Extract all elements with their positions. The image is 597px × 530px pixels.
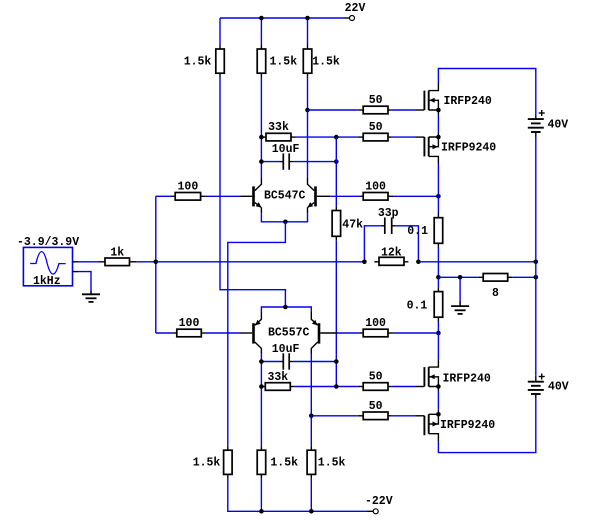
junction bottom feedback tap — [436, 331, 441, 336]
resistor 50 (row2) — [358, 133, 392, 141]
terminal 22V — [344, 16, 355, 21]
wire 10uF row left — [261, 161, 280, 163]
wire 50 to m2 gate — [392, 136, 415, 138]
wire base row top right — [330, 195, 359, 197]
wire col1 down to bottom emitter bus — [220, 78, 285, 308]
resistor 100 (upper left) — [171, 193, 205, 201]
svg-text:40V: 40V — [548, 380, 569, 393]
wire source to R 1k — [78, 261, 99, 263]
wire 100 to Q3 base — [206, 332, 241, 334]
wire 33p branch left — [364, 226, 380, 262]
junction col2b rail — [259, 509, 264, 514]
mosfet M1 IRFP240 (top) — [415, 83, 438, 115]
junction output column feedback tap — [436, 194, 441, 199]
resistor 1.5k (top middle) — [257, 45, 266, 78]
wire 100 to Q1 base — [205, 195, 241, 197]
resistor 1.5k (bottom right) — [307, 446, 316, 478]
junction output node — [436, 275, 441, 280]
svg-text:0.1: 0.1 — [407, 225, 428, 238]
svg-text:8: 8 — [492, 287, 499, 300]
resistor 1.5k (top right) — [303, 45, 312, 78]
wire col3 upper — [307, 18, 309, 45]
svg-text:50: 50 — [369, 400, 383, 413]
svg-text:1.5k: 1.5k — [193, 457, 221, 470]
wire bottom feedback tap to M3 drain — [437, 333, 439, 360]
battery B1 40V — [528, 110, 545, 137]
svg-text:50: 50 — [369, 94, 383, 107]
mosfet M3 IRFP240 (bottom) — [415, 360, 438, 391]
wire col2 upper — [260, 18, 262, 45]
wire output column upper 0.1 lead — [437, 196, 439, 213]
svg-text:IRFP240: IRFP240 — [444, 95, 492, 108]
svg-text:33p: 33p — [378, 207, 399, 220]
wire col2 10uF row to Q1 collector — [260, 162, 262, 178]
resistor 100 (upper right) — [359, 193, 393, 201]
resistor 0.1 (lower) — [434, 287, 443, 321]
junction emitter bus bottom — [283, 305, 288, 310]
wire 10uF to feedback column — [293, 361, 336, 363]
ground (output) — [451, 301, 469, 314]
wire 50 to M4 gate — [392, 415, 415, 417]
wire base row top left — [156, 195, 171, 197]
wire col2 to 33k row — [260, 78, 262, 138]
junction col2 10uF row — [259, 159, 264, 164]
wire tail top pair to bottom left column — [228, 222, 286, 446]
svg-text:47k: 47k — [342, 218, 363, 231]
junction col2b 33k row — [259, 384, 264, 389]
wire 50 to M3 gate — [392, 386, 415, 388]
wire col3b to 1.5k — [310, 416, 312, 446]
mosfet M2 IRFP9240 (top) — [415, 133, 438, 164]
svg-text:10uF: 10uF — [272, 143, 300, 156]
junction output row at battery rail — [534, 275, 539, 280]
svg-text:1.5k: 1.5k — [312, 56, 340, 69]
wire base row bottom left — [156, 332, 173, 334]
resistor 50 (row4) — [358, 412, 392, 420]
junction feedback 33k row — [334, 135, 339, 140]
junction col2 rail — [259, 16, 264, 21]
svg-text:100: 100 — [365, 180, 386, 193]
terminal -22V — [368, 509, 379, 514]
wire 10uF bottom row left — [261, 361, 280, 363]
svg-text:50: 50 — [369, 371, 383, 384]
wire row2b to 50 — [311, 415, 358, 417]
svg-text:33k: 33k — [268, 121, 289, 134]
svg-text:22V: 22V — [345, 2, 366, 15]
wire +22V rail — [220, 17, 344, 19]
junction col3 row1 — [305, 108, 310, 113]
svg-text:40V: 40V — [548, 118, 569, 131]
wire 33p branch right — [396, 226, 419, 262]
wire col1 upper — [219, 18, 221, 45]
wire base row bottom right — [338, 332, 360, 334]
junction feedback 10uF bottom — [334, 359, 339, 364]
transistor Q1 BC547C (left) — [241, 178, 262, 213]
svg-text:50: 50 — [369, 121, 383, 134]
svg-text:1.5k: 1.5k — [184, 56, 212, 69]
svg-text:10uF: 10uF — [272, 343, 300, 356]
wire M2 drain to feedback tap — [437, 164, 439, 197]
capacitor 10uF (bottom) — [280, 353, 293, 369]
wire output column to output node — [437, 248, 439, 278]
battery B2 40V — [528, 374, 545, 399]
svg-text:-3.9/3.9V: -3.9/3.9V — [17, 236, 79, 249]
wire center row right segment — [418, 261, 535, 263]
wire M4 drain to battery return — [438, 398, 535, 453]
wire M1 drain up and over to battery — [438, 69, 535, 117]
ground (input) — [82, 291, 100, 302]
wire 100 to output column — [393, 195, 438, 197]
wire battery rail middle — [535, 137, 537, 376]
junction M2 source — [436, 135, 441, 140]
voltage source V1 -3.9/3.9V 1kHz — [23, 247, 78, 285]
wire col3b collector to row2b — [310, 354, 312, 416]
wire 100 to bottom feedback tap — [393, 332, 438, 334]
wire M3 source to M4 source — [437, 391, 439, 410]
resistor 47k — [332, 206, 341, 240]
wire -22V rail — [228, 478, 368, 511]
resistor 1.5k (top left) — [216, 45, 225, 78]
wire 33k to feedback column — [295, 386, 358, 388]
junction feedback 10uF row — [334, 159, 339, 164]
junction M1 source — [436, 108, 441, 113]
junction col2b 10uF row — [259, 359, 264, 364]
resistor 1.5k (bottom left) — [224, 446, 233, 478]
wire col2 33k row to 10uF row — [260, 137, 262, 162]
wire output node to lower 0.1 — [437, 277, 439, 287]
junction col3b rail — [309, 509, 314, 514]
junction col3b row2b — [309, 414, 314, 419]
junction feedback 33k bottom — [334, 384, 339, 389]
svg-text:100: 100 — [365, 317, 386, 330]
junction col2 33k row — [259, 135, 264, 140]
resistor 50 (row3) — [358, 383, 392, 391]
resistor 100 (lower left) — [173, 329, 206, 337]
svg-text:1.5k: 1.5k — [270, 56, 298, 69]
svg-text:1.5k: 1.5k — [270, 457, 298, 470]
svg-text:-22V: -22V — [365, 495, 393, 508]
junction center row at battery rail — [534, 260, 539, 265]
resistor 0.1 (upper) — [434, 214, 443, 248]
transistor Q4 BC557C (right) — [311, 312, 337, 354]
wire emitter bus top pair — [261, 213, 307, 222]
resistor 100 (lower right) — [359, 329, 393, 337]
svg-text:IRFP9240: IRFP9240 — [440, 419, 495, 432]
wire emitter bus bottom pair — [261, 307, 311, 312]
svg-text:BC547C: BC547C — [264, 190, 306, 203]
wire output row to ground tap — [438, 276, 478, 278]
svg-text:BC557C: BC557C — [268, 327, 310, 340]
junction emitter bus — [283, 220, 288, 225]
wire 10uF to feedback node — [293, 161, 336, 163]
wire feedback column upper — [335, 137, 337, 206]
capacitor 33p — [381, 218, 396, 235]
wire col3 to row1 — [307, 78, 309, 111]
resistor 8 — [479, 274, 513, 282]
svg-text:33k: 33k — [267, 371, 288, 384]
svg-text:12k: 12k — [381, 246, 402, 259]
svg-text:IRFP240: IRFP240 — [443, 373, 491, 386]
wire feedback column lower — [335, 241, 337, 387]
wire ground stub — [459, 277, 461, 301]
transistor Q2 BC547C (right) — [308, 178, 331, 213]
wire 50 to m1 gate — [392, 109, 415, 111]
resistor 1k — [99, 258, 136, 266]
svg-text:IRFP9240: IRFP9240 — [441, 141, 496, 154]
mosfet M4 IRFP9240 (bottom) — [415, 410, 438, 441]
junction 12k right — [416, 260, 421, 265]
svg-text:100: 100 — [178, 180, 199, 193]
resistor 33k (bottom) — [261, 383, 294, 391]
junction col3 rail — [305, 16, 310, 21]
wire center row — [156, 261, 365, 263]
junction ground tap — [458, 275, 463, 280]
wire 33k to feedback node — [296, 136, 358, 138]
svg-text:0.1: 0.1 — [407, 299, 428, 312]
resistor 50 (row1) — [358, 106, 392, 114]
junction M4 source — [436, 412, 441, 417]
capacitor 10uF (top) — [280, 153, 293, 169]
wire col2b lower — [260, 478, 262, 511]
resistor 1.5k (bottom middle) — [257, 446, 266, 478]
wire source negative lead — [78, 272, 91, 291]
wire col3 row1 to Q2 collector — [307, 110, 309, 178]
node input column — [155, 196, 157, 333]
junction input node — [154, 260, 159, 265]
svg-text:100: 100 — [179, 317, 200, 330]
transistor Q3 BC557C (left) — [241, 312, 262, 354]
wire 1k to input node — [136, 261, 156, 263]
wire lower 0.1 to bottom feedback tap — [437, 322, 439, 334]
wire 8 to battery rail — [512, 276, 536, 278]
svg-text:1kHz: 1kHz — [33, 275, 61, 288]
svg-text:1k: 1k — [110, 246, 124, 259]
junction M3 source — [436, 384, 441, 389]
wire col3b lower — [310, 478, 312, 511]
junction 12k left — [362, 260, 367, 265]
wire row1 gate IRFP240 top — [308, 109, 358, 111]
svg-text:1.5k: 1.5k — [318, 457, 346, 470]
resistor 12k — [374, 257, 408, 265]
resistor 33k (top) — [261, 133, 295, 141]
wire col2b collector to 1.5k — [260, 354, 262, 447]
wire M1 source to M2 source — [437, 115, 439, 133]
